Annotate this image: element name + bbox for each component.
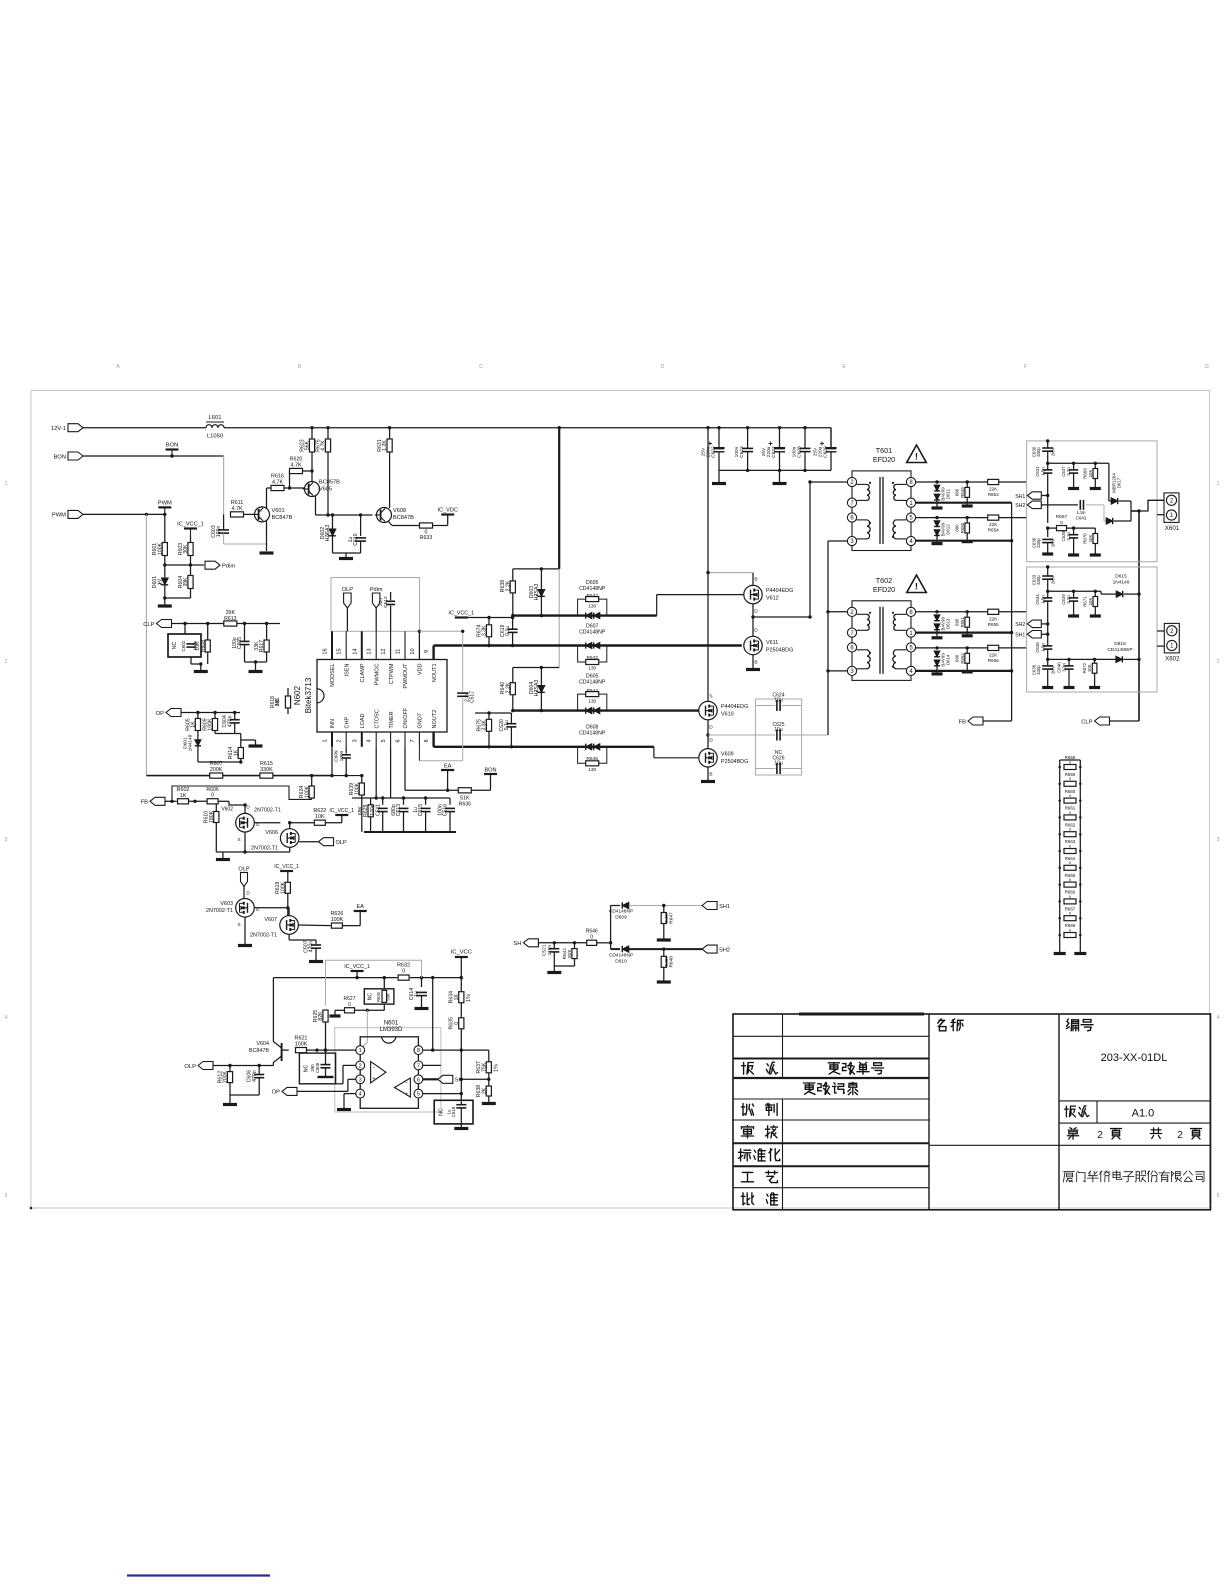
svg-text:R641: R641 [562, 948, 568, 960]
svg-text:R649: R649 [960, 487, 965, 498]
svg-text:82K: 82K [318, 1011, 324, 1021]
svg-text:7: 7 [417, 1064, 420, 1070]
svg-text:C627: C627 [771, 446, 777, 458]
svg-text:C618: C618 [451, 1106, 456, 1117]
svg-text:S: S [709, 694, 712, 700]
svg-text:10K: 10K [1087, 664, 1092, 672]
svg-text:1: 1 [1217, 481, 1220, 487]
svg-text:1.5n: 1.5n [1077, 510, 1086, 515]
svg-text:CHP: CHP [344, 717, 350, 729]
svg-text:10K: 10K [1088, 470, 1093, 478]
svg-text:LOAD: LOAD [360, 713, 366, 728]
svg-text:3.3K: 3.3K [482, 625, 488, 636]
svg-text:V604: V604 [256, 1041, 269, 1047]
svg-text:10K: 10K [1088, 598, 1093, 606]
svg-text:1: 1 [359, 1048, 362, 1054]
svg-text:D617: D617 [1116, 477, 1121, 488]
svg-text:SH: SH [513, 941, 521, 947]
svg-text:2: 2 [337, 739, 343, 742]
svg-text:4: 4 [367, 739, 373, 742]
svg-text:C513: C513 [396, 804, 402, 817]
svg-text:CD4148NP: CD4148NP [579, 730, 606, 736]
svg-text:1%: 1% [494, 1064, 500, 1072]
svg-text:C602: C602 [181, 640, 186, 651]
svg-text:5: 5 [5, 1193, 8, 1199]
svg-text:T601: T601 [876, 446, 892, 455]
svg-text:2N7002-T1: 2N7002-T1 [250, 933, 277, 939]
svg-text:!: ! [915, 452, 918, 463]
svg-text:NC: NC [368, 993, 374, 1001]
svg-text:22K: 22K [989, 616, 998, 621]
svg-text:V601: V601 [272, 508, 285, 514]
svg-text:5: 5 [417, 1092, 420, 1098]
svg-text:330K: 330K [260, 767, 273, 773]
svg-text:C516: C516 [443, 804, 449, 817]
svg-text:R652: R652 [960, 653, 965, 664]
svg-text:C610: C610 [353, 533, 359, 546]
svg-text:330p: 330p [1036, 575, 1041, 585]
svg-text:82K: 82K [567, 949, 573, 958]
svg-text:D610: D610 [615, 958, 627, 964]
svg-text:GND7: GND7 [418, 713, 424, 728]
svg-text:PWM: PWM [52, 513, 66, 519]
svg-text:V602: V602 [221, 807, 233, 813]
svg-text:V603: V603 [220, 901, 233, 907]
svg-text:R617: R617 [259, 640, 265, 653]
svg-text:P2504BDG: P2504BDG [766, 648, 793, 654]
svg-text:B: B [709, 772, 712, 778]
svg-text:R656: R656 [988, 658, 999, 663]
svg-text:D611: D611 [946, 488, 951, 499]
svg-text:V608: V608 [393, 508, 406, 514]
svg-text:V610: V610 [721, 712, 734, 718]
svg-text:X602: X602 [1165, 655, 1180, 662]
svg-text:Pdim: Pdim [222, 564, 235, 570]
svg-text:2K: 2K [481, 1087, 487, 1094]
svg-text:100n: 100n [339, 750, 345, 761]
svg-text:0: 0 [348, 1002, 351, 1008]
svg-text:3: 3 [5, 837, 8, 843]
svg-text:1.5n: 1.5n [1040, 467, 1045, 476]
svg-text:D609: D609 [615, 914, 627, 920]
svg-text:CTPWM: CTPWM [389, 663, 395, 684]
svg-text:4.7K: 4.7K [231, 506, 242, 512]
svg-text:2: 2 [1097, 1130, 1103, 1141]
svg-text:R657: R657 [1056, 514, 1068, 520]
svg-text:BC847B: BC847B [393, 515, 414, 521]
svg-text:C612: C612 [383, 596, 389, 608]
svg-text:4.7K: 4.7K [321, 440, 327, 451]
svg-text:HZSA3: HZSA3 [534, 680, 540, 697]
svg-text:V606: V606 [265, 830, 278, 836]
svg-text:D: D [246, 891, 250, 896]
svg-text:100K: 100K [295, 1041, 308, 1047]
svg-text:+: + [405, 1092, 408, 1098]
svg-text:P2504BDG: P2504BDG [721, 759, 748, 765]
svg-text:CD4148NP: CD4148NP [579, 586, 606, 592]
svg-text:1.5n: 1.5n [1040, 643, 1045, 652]
svg-text:BON: BON [166, 443, 179, 449]
svg-text:C628: C628 [797, 446, 803, 458]
svg-text:NOUT2: NOUT2 [432, 710, 438, 729]
svg-text:5: 5 [1217, 1193, 1220, 1199]
svg-text:2KV: 2KV [1051, 666, 1056, 674]
svg-text:2: 2 [359, 1064, 362, 1070]
svg-text:1V: 1V [157, 578, 163, 585]
svg-text:470n: 470n [252, 1070, 258, 1082]
svg-text:8: 8 [424, 739, 430, 742]
svg-text:R630: R630 [376, 991, 381, 1002]
svg-text:VDD: VDD [418, 663, 424, 675]
svg-text:2N7002-T1: 2N7002-T1 [206, 908, 233, 914]
svg-text:22K: 22K [989, 487, 998, 492]
svg-text:1: 1 [1170, 644, 1174, 650]
svg-text:IC_VCC_1: IC_VCC_1 [344, 964, 370, 970]
svg-text:B: B [754, 577, 757, 583]
svg-text:6: 6 [396, 739, 402, 742]
svg-text:SH2: SH2 [1015, 622, 1025, 628]
svg-text:V611: V611 [766, 640, 778, 646]
svg-text:56K: 56K [386, 993, 391, 1001]
svg-text:100n: 100n [216, 526, 222, 538]
svg-text:R650: R650 [960, 522, 965, 533]
svg-text:100K: 100K [304, 785, 310, 798]
svg-text:IC_VDC: IC_VDC [437, 508, 458, 514]
svg-text:22K: 22K [989, 522, 998, 527]
svg-text:CD4148NP: CD4148NP [609, 953, 633, 959]
svg-text:INN: INN [330, 719, 336, 729]
svg-text:CD4148WP: CD4148WP [1107, 647, 1132, 653]
svg-text:D613: D613 [946, 618, 951, 629]
svg-text:180K: 180K [209, 810, 215, 823]
svg-text:15: 15 [337, 648, 343, 654]
svg-text:200K: 200K [223, 1071, 229, 1084]
svg-text:!: ! [915, 582, 918, 593]
svg-text:R613: R613 [224, 616, 237, 622]
svg-text:SH2: SH2 [1015, 503, 1025, 509]
svg-text:CLP: CLP [1081, 719, 1092, 725]
svg-text:1u: 1u [414, 991, 420, 997]
svg-text:3.3K: 3.3K [482, 719, 488, 730]
svg-text:C622: C622 [711, 446, 717, 458]
svg-text:330p: 330p [1036, 538, 1041, 548]
svg-text:R636: R636 [459, 802, 472, 808]
svg-text:0: 0 [590, 934, 593, 940]
svg-text:4: 4 [5, 1015, 8, 1021]
svg-text:S: S [237, 837, 240, 842]
svg-text:7: 7 [410, 739, 416, 742]
svg-text:130: 130 [588, 767, 596, 773]
svg-text:3.3n: 3.3n [1066, 531, 1071, 540]
svg-text:11: 11 [396, 649, 402, 655]
svg-text:203-XX-01DL: 203-XX-01DL [1101, 1052, 1168, 1064]
svg-text:IC_VCC_1: IC_VCC_1 [177, 522, 204, 528]
svg-text:C511: C511 [375, 804, 381, 816]
svg-text:D: D [709, 725, 713, 731]
svg-text:12: 12 [381, 648, 387, 654]
svg-text:D614: D614 [946, 654, 951, 665]
svg-text:2: 2 [1170, 499, 1174, 505]
svg-text:HZSA3: HZSA3 [534, 584, 540, 601]
svg-text:ISEN: ISEN [344, 663, 350, 676]
svg-text:Bitek3713: Bitek3713 [304, 677, 313, 713]
svg-text:0: 0 [1060, 520, 1063, 526]
svg-text:−: − [405, 1081, 408, 1087]
svg-text:D612: D612 [946, 524, 951, 535]
svg-text:CLAMP: CLAMP [360, 663, 366, 682]
svg-text:C629: C629 [823, 446, 829, 458]
svg-text:BC847B: BC847B [249, 1048, 269, 1054]
svg-text:1K: 1K [233, 749, 239, 756]
svg-text:4: 4 [1217, 1015, 1220, 1021]
svg-text:100K: 100K [157, 542, 163, 555]
svg-text:8: 8 [417, 1048, 420, 1054]
svg-text:14: 14 [352, 648, 358, 654]
svg-text:SH2: SH2 [719, 947, 730, 953]
svg-text:2: 2 [1217, 659, 1220, 665]
svg-text:13: 13 [367, 648, 373, 654]
svg-text:BC857B: BC857B [319, 480, 340, 486]
svg-text:D615: D615 [1115, 574, 1127, 580]
svg-text:V612: V612 [766, 596, 779, 602]
svg-text:D616: D616 [1114, 641, 1126, 647]
svg-text:F: F [1024, 364, 1027, 370]
svg-text:C515: C515 [418, 804, 424, 817]
svg-text:L1050: L1050 [207, 434, 223, 440]
svg-text:2N7002-T1: 2N7002-T1 [251, 846, 278, 852]
svg-text:10K: 10K [315, 814, 325, 820]
svg-text:100K: 100K [331, 917, 344, 923]
svg-text:R633: R633 [420, 535, 433, 541]
svg-text:1N4148: 1N4148 [188, 734, 194, 751]
svg-text:10u: 10u [774, 727, 783, 733]
svg-text:FB: FB [959, 719, 967, 725]
svg-text:C605: C605 [237, 637, 243, 650]
svg-text:OLP: OLP [336, 840, 347, 846]
svg-text:4: 4 [359, 1092, 362, 1098]
svg-text:33K: 33K [275, 697, 281, 707]
svg-text:EFD20: EFD20 [873, 455, 895, 464]
svg-text:200K: 200K [210, 767, 223, 773]
svg-text:OLP: OLP [342, 587, 353, 593]
svg-text:IC_VCC: IC_VCC [451, 950, 472, 956]
svg-text:C521: C521 [542, 944, 548, 956]
svg-text:R651: R651 [960, 616, 965, 627]
svg-text:IC_VCC_1: IC_VCC_1 [448, 611, 474, 617]
svg-text:10u: 10u [774, 761, 783, 767]
svg-text:2KV: 2KV [1051, 448, 1056, 456]
svg-text:C623: C623 [739, 446, 745, 458]
svg-text:P4404EDG: P4404EDG [721, 704, 748, 710]
svg-text:NOUT1: NOUT1 [432, 664, 438, 683]
svg-text:Pdim: Pdim [370, 587, 383, 593]
svg-text:R654: R654 [988, 528, 999, 533]
svg-text:D: D [709, 738, 713, 744]
svg-text:100K: 100K [354, 782, 360, 795]
svg-text:39K: 39K [183, 577, 189, 587]
svg-text:390: 390 [310, 1064, 315, 1072]
svg-text:X601: X601 [1165, 525, 1180, 532]
svg-text:1K: 1K [454, 993, 460, 1000]
svg-text:1K: 1K [191, 721, 197, 728]
svg-text:CD4148NP: CD4148NP [579, 629, 606, 635]
svg-text:C: C [479, 364, 483, 370]
svg-text:6: 6 [417, 1077, 420, 1083]
svg-text:V607: V607 [264, 917, 277, 923]
svg-text:L601: L601 [209, 415, 222, 421]
svg-text:0.1u: 0.1u [504, 720, 510, 730]
svg-text:SH: SH [455, 1078, 463, 1084]
svg-text:R642: R642 [586, 593, 598, 599]
svg-text:3: 3 [352, 739, 358, 742]
svg-text:R653: R653 [988, 492, 999, 497]
svg-text:EA: EA [444, 764, 452, 770]
svg-text:3.3n: 3.3n [1066, 595, 1071, 604]
svg-text:BC847B: BC847B [272, 515, 293, 521]
svg-text:0.1u: 0.1u [505, 626, 511, 636]
svg-text:LM393D: LM393D [380, 1027, 403, 1033]
svg-text:3: 3 [359, 1077, 362, 1083]
svg-text:C641: C641 [1076, 516, 1087, 521]
svg-text:100K: 100K [208, 718, 214, 731]
svg-text:3: 3 [1217, 837, 1220, 843]
svg-text:2: 2 [1177, 1130, 1183, 1141]
svg-text:0: 0 [402, 968, 405, 974]
svg-text:R629: R629 [363, 804, 369, 817]
svg-text:CTOSC: CTOSC [374, 709, 380, 728]
svg-text:1K: 1K [180, 793, 187, 799]
svg-text:2.2K: 2.2K [505, 682, 511, 693]
svg-text:V609: V609 [721, 752, 734, 758]
svg-text:SH1: SH1 [1015, 633, 1025, 639]
svg-text:R644: R644 [586, 688, 598, 694]
svg-text:EFD20: EFD20 [873, 585, 895, 594]
svg-text:PWMOUT: PWMOUT [403, 663, 409, 689]
svg-text:R655: R655 [988, 622, 999, 627]
svg-text:OLP: OLP [238, 866, 249, 872]
svg-text:SH1: SH1 [1015, 494, 1025, 500]
svg-text:C517: C517 [470, 691, 476, 703]
svg-text:30K: 30K [183, 544, 189, 554]
svg-text:D: D [754, 609, 758, 615]
svg-text:2N7002-T1: 2N7002-T1 [254, 808, 281, 814]
svg-text:HZSA3: HZSA3 [325, 525, 331, 542]
svg-text:A: A [116, 364, 120, 370]
svg-text:2: 2 [1170, 629, 1174, 635]
svg-text:OP: OP [272, 1090, 281, 1096]
svg-text:EA: EA [356, 904, 364, 910]
svg-text:NC: NC [775, 750, 783, 756]
svg-text:ON/OFF: ON/OFF [403, 707, 409, 728]
svg-text:BON: BON [484, 768, 496, 774]
svg-text:IC_VCC_1: IC_VCC_1 [329, 808, 354, 814]
svg-text:1.5n: 1.5n [1040, 595, 1045, 604]
svg-text:E: E [842, 364, 846, 370]
svg-text:PWM: PWM [158, 500, 172, 506]
svg-text:22n: 22n [378, 598, 384, 606]
svg-text:1: 1 [1170, 513, 1174, 519]
svg-text:0: 0 [454, 1022, 460, 1025]
svg-text:2.2K: 2.2K [505, 580, 511, 591]
svg-text:+: + [373, 1076, 376, 1082]
svg-text:PWMOC: PWMOC [374, 663, 380, 685]
svg-text:R647: R647 [669, 912, 675, 924]
svg-text:1N4148: 1N4148 [1113, 579, 1130, 585]
svg-text:R645: R645 [586, 756, 598, 762]
svg-text:2: 2 [5, 659, 8, 665]
svg-text:R648: R648 [669, 956, 675, 968]
svg-text:1u: 1u [446, 1109, 451, 1114]
svg-text:N602: N602 [293, 685, 302, 705]
svg-text:1%: 1% [466, 994, 472, 1002]
svg-text:CD4148NP: CD4148NP [609, 909, 633, 915]
svg-text:3.3n: 3.3n [1062, 663, 1067, 672]
svg-text:TIMER: TIMER [389, 711, 395, 728]
svg-text:R643: R643 [586, 655, 598, 661]
svg-text:330p: 330p [1036, 447, 1041, 457]
svg-text:470n: 470n [227, 715, 233, 727]
svg-text:OP: OP [156, 711, 165, 717]
svg-text:10: 10 [410, 648, 416, 654]
svg-text:10u: 10u [774, 698, 783, 704]
svg-text:−: − [373, 1065, 376, 1071]
svg-text:IC_VCC_1: IC_VCC_1 [274, 864, 299, 870]
svg-text:9: 9 [424, 650, 430, 653]
svg-text:CLP: CLP [143, 622, 154, 628]
svg-text:130: 130 [588, 666, 596, 672]
svg-text:CD4148NP: CD4148NP [579, 679, 606, 685]
svg-text:SH1: SH1 [719, 904, 730, 910]
svg-text:22K: 22K [989, 653, 998, 658]
svg-text:5: 5 [381, 739, 387, 742]
svg-text:D: D [754, 628, 758, 634]
svg-text:10K: 10K [1088, 535, 1093, 543]
svg-text:D: D [246, 805, 250, 810]
svg-text:FB: FB [141, 800, 149, 806]
svg-text:OLP: OLP [184, 1064, 196, 1070]
svg-text:470n: 470n [547, 945, 553, 956]
svg-text:B: B [754, 660, 757, 666]
svg-text:C609: C609 [334, 750, 340, 762]
svg-text:16: 16 [323, 648, 329, 654]
svg-text:NC: NC [439, 1108, 445, 1116]
svg-text:12V-1: 12V-1 [51, 426, 66, 432]
svg-text:130: 130 [588, 699, 596, 705]
svg-text:NC: NC [304, 1065, 310, 1073]
svg-text:BON: BON [53, 454, 66, 460]
svg-text:1: 1 [323, 739, 329, 742]
svg-text:1: 1 [5, 481, 8, 487]
svg-text:T602: T602 [876, 576, 892, 585]
svg-text:C508: C508 [315, 1062, 320, 1073]
svg-text:56K: 56K [305, 440, 311, 450]
svg-text:4.7K: 4.7K [272, 479, 283, 485]
svg-text:A1.0: A1.0 [1132, 1108, 1155, 1120]
svg-text:4.7K: 4.7K [290, 462, 301, 468]
svg-text:2KV: 2KV [1051, 576, 1056, 584]
svg-text:330p: 330p [1036, 665, 1041, 675]
svg-text:2KV: 2KV [1051, 539, 1056, 547]
svg-text:NC: NC [172, 642, 178, 650]
svg-text:D: D [661, 364, 665, 370]
svg-text:P4404EDG: P4404EDG [766, 588, 793, 594]
svg-text:3.3n: 3.3n [1066, 467, 1071, 476]
svg-text:S: S [237, 922, 240, 927]
svg-text:130: 130 [588, 604, 596, 610]
svg-text:MODSEL: MODSEL [330, 664, 336, 687]
svg-text:N601: N601 [384, 1021, 399, 1027]
svg-text:75K: 75K [481, 1062, 487, 1072]
